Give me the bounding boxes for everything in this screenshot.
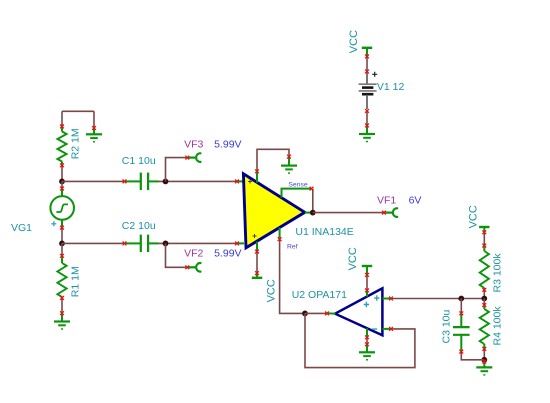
svg-text:R4 100k: R4 100k — [492, 306, 504, 346]
svg-text:Sense: Sense — [288, 181, 307, 188]
node G junction — [481, 296, 487, 302]
pin mark ground G3 — [287, 155, 291, 159]
svg-text:VCC: VCC — [468, 205, 480, 228]
U2 plus input stub — [382, 298, 391, 300]
svg-text:VG1: VG1 — [11, 222, 32, 234]
svg-text:VF3: VF3 — [184, 139, 203, 151]
wire R2 top lead — [61, 111, 63, 126]
ground G4 stub — [366, 125, 368, 133]
wire V1 to ground G4 — [366, 111, 368, 126]
svg-text:R1 1M: R1 1M — [69, 266, 81, 297]
pin mark C3 top — [459, 311, 463, 315]
resistor R4 top stub — [483, 305, 485, 309]
resistor R4 bottom stub — [483, 344, 485, 349]
capacitor C2 right stub — [149, 242, 159, 244]
U1 top pin stub — [256, 171, 258, 182]
op-amp U1 body — [243, 174, 304, 248]
pin mark VCC bar U1 — [255, 271, 259, 275]
svg-text:5.99V: 5.99V — [214, 248, 241, 260]
probe VF2 — [187, 263, 200, 272]
U2 output stub — [327, 312, 336, 314]
pin mark R3 bottom — [482, 288, 486, 292]
pin mark VF1 — [382, 211, 386, 215]
source VG1 waveform — [56, 204, 68, 212]
battery V1 plus sign — [372, 72, 377, 77]
probe VF3 — [187, 153, 200, 162]
node E junction — [302, 311, 308, 317]
resistor R1 bottom stub — [61, 296, 63, 299]
wire R2 to node A — [61, 165, 63, 181]
pin mark VF2 — [185, 265, 189, 269]
node H junction — [481, 357, 487, 363]
wire node B to C2 — [62, 242, 125, 244]
svg-text:VCC: VCC — [266, 279, 278, 302]
wire U1 Ref to node E — [280, 239, 305, 313]
VCC bar U1 — [252, 273, 262, 278]
wire VCC bar to V1 — [366, 56, 368, 71]
pin mark R2 top — [60, 125, 64, 129]
wire node E to U2 output — [305, 312, 327, 314]
pin mark C1 left — [123, 180, 127, 184]
pin mark C3 bottom — [459, 350, 463, 354]
svg-text:VF1: VF1 — [377, 194, 396, 206]
node B junction — [59, 241, 65, 247]
ground G5 — [359, 352, 375, 360]
node D junction — [163, 241, 169, 247]
svg-text:VCC: VCC — [348, 30, 360, 53]
pin mark VCC bar U2 — [365, 273, 369, 277]
op-amp U2 body — [335, 288, 382, 335]
wire R3 to node G — [483, 290, 485, 299]
source VG1 circle — [50, 196, 74, 220]
svg-text:Ref: Ref — [287, 244, 298, 251]
U1 output stub — [305, 212, 313, 214]
resistor R1 — [57, 263, 66, 297]
pin mark U1 lower input — [235, 242, 239, 246]
wire C2 to U1 lower input — [158, 242, 237, 244]
capacitor C2 plates — [141, 235, 148, 253]
wire node A to C1 — [62, 180, 125, 182]
ground G4 — [359, 134, 375, 142]
pin mark ground G5 — [365, 342, 369, 346]
capacitor C1 right stub — [149, 180, 159, 182]
pin mark VF3 — [185, 156, 189, 160]
wire feedback loop — [305, 313, 415, 367]
wire U2 plus input to divider — [391, 298, 484, 300]
svg-text:5.99V: 5.99V — [214, 139, 241, 151]
pin mark U2 top pin — [365, 289, 369, 293]
wire node D to VF2 probe — [166, 243, 188, 267]
pin mark U1 Ref — [278, 237, 282, 241]
pin mark V1 top — [365, 70, 369, 74]
pin mark ground G6 — [482, 360, 486, 364]
resistor R3 top stub — [483, 246, 485, 251]
svg-text:C3 10u: C3 10u — [441, 309, 453, 343]
wire node G to R4 — [483, 299, 485, 306]
VG1 top stub — [61, 189, 63, 197]
svg-text:C1 10u: C1 10u — [122, 155, 156, 167]
wire node A to VG1 — [61, 181, 63, 188]
wire output to VF1 probe — [313, 212, 384, 214]
wire node C to VF3 probe — [166, 158, 188, 182]
ground G3 — [281, 166, 297, 174]
pin mark R4 bottom — [482, 347, 486, 351]
U1 Sense pin stub — [282, 189, 312, 198]
ground G5 stub — [366, 344, 368, 352]
ground G6 stub — [483, 362, 485, 367]
resistor R2 — [57, 132, 66, 162]
U1 input polarity marks — [248, 180, 257, 239]
pin mark R1 top — [60, 254, 64, 258]
node A junction — [59, 179, 65, 185]
pin mark U2 plus input — [389, 297, 393, 301]
svg-text:C2 10u: C2 10u — [122, 220, 156, 232]
U1 upper input stub — [237, 180, 244, 182]
pin mark U2 bottom pin — [365, 335, 369, 339]
VCC bar R3 — [479, 227, 489, 232]
svg-text:U2 OPA171: U2 OPA171 — [292, 289, 347, 301]
pin mark VG1 top — [60, 187, 64, 191]
U2 minus input stub — [382, 328, 391, 330]
wire U2 bottom to ground G5 — [366, 337, 368, 344]
wire VG1 to node B — [61, 228, 63, 244]
capacitor C1 plates — [141, 173, 148, 191]
capacitor C1 left stub — [125, 180, 141, 182]
pin mark R4 top — [482, 303, 486, 307]
pin mark VCC bar V1 — [365, 55, 369, 59]
ground G3 stub — [288, 157, 290, 165]
wire Sense to output node — [312, 189, 314, 213]
pin mark R2 bottom — [60, 163, 64, 167]
wire top-left horizontal — [62, 110, 94, 112]
U2 bottom pin stub — [366, 328, 368, 337]
VG1 bottom stub — [61, 220, 63, 228]
U1 Ref pin stub — [279, 228, 281, 240]
svg-text:VF2: VF2 — [184, 248, 203, 260]
pin mark R3 top — [482, 244, 486, 248]
wire U1 top pin to ground G3 — [257, 149, 289, 171]
svg-text:VCC: VCC — [347, 247, 359, 270]
svg-text:R3 100k: R3 100k — [492, 253, 504, 293]
pin mark U1 Sense — [310, 187, 314, 191]
svg-text:R2 1M: R2 1M — [69, 128, 81, 159]
capacitor C2 left stub — [125, 242, 141, 244]
ground G2 stub — [61, 313, 63, 321]
capacitor C3 bottom stub — [460, 335, 462, 352]
wire to ground G1 — [93, 111, 95, 128]
ground G1 stub — [93, 128, 95, 134]
pin mark ground G1 — [92, 126, 96, 130]
svg-text:6V: 6V — [409, 194, 422, 206]
ground G1 — [86, 134, 102, 142]
U1 VCC pin stub — [256, 242, 258, 252]
pin mark ground G2 — [60, 311, 64, 315]
pin mark ground G4 — [365, 124, 369, 128]
wire node B to R1 — [61, 243, 63, 255]
VCC bar V1 — [362, 48, 372, 57]
pin mark U1 top — [255, 169, 259, 173]
pin mark U1 upper input — [235, 180, 239, 184]
node I junction — [458, 296, 464, 302]
wire node I to C3 — [460, 299, 462, 314]
wire VCC bar to R3 — [483, 232, 485, 245]
pin mark U2 output — [325, 312, 329, 316]
pin mark VCC bar R3 — [482, 230, 486, 234]
VCC bar U2 — [362, 266, 372, 275]
wire R1 to ground G2 — [61, 298, 63, 313]
node F output junction — [310, 210, 316, 216]
wire R4 to node H — [483, 349, 485, 360]
probe VF1 — [384, 208, 397, 217]
resistor R2 bottom stub — [61, 162, 63, 166]
wire C3 to node H — [461, 352, 484, 360]
pin mark V1 bottom — [365, 109, 369, 113]
svg-text:V1 12: V1 12 — [377, 81, 405, 93]
capacitor C3 plates — [453, 327, 470, 335]
pin mark U1 VCC pin — [255, 250, 259, 254]
U1 lower input stub — [237, 242, 244, 244]
pin mark VG1 bottom — [60, 226, 64, 230]
resistor R4 — [480, 309, 489, 344]
resistor R1 top stub — [61, 256, 63, 263]
battery V1 — [359, 72, 377, 110]
ground G2 — [54, 322, 70, 330]
wire U1 VCC pin to VCC bar — [256, 252, 258, 274]
svg-text:U1 INA134E: U1 INA134E — [295, 226, 353, 238]
wire VCC bar to U2 — [366, 275, 368, 291]
VG1 plus sign — [51, 221, 56, 226]
U2 top pin stub — [366, 290, 368, 296]
capacitor C3 top stub — [460, 313, 462, 326]
resistor R3 bottom stub — [483, 288, 485, 290]
wire C1 to U1 upper input — [158, 180, 237, 182]
pin mark U2 minus input — [389, 327, 393, 331]
ground G6 — [476, 367, 492, 375]
pin mark C2 left — [123, 242, 127, 246]
node C junction — [163, 179, 169, 185]
resistor R2 top stub — [61, 126, 63, 131]
resistor R3 — [480, 251, 489, 288]
pin mark R1 bottom — [60, 296, 64, 300]
U2 polarity marks — [364, 295, 380, 329]
